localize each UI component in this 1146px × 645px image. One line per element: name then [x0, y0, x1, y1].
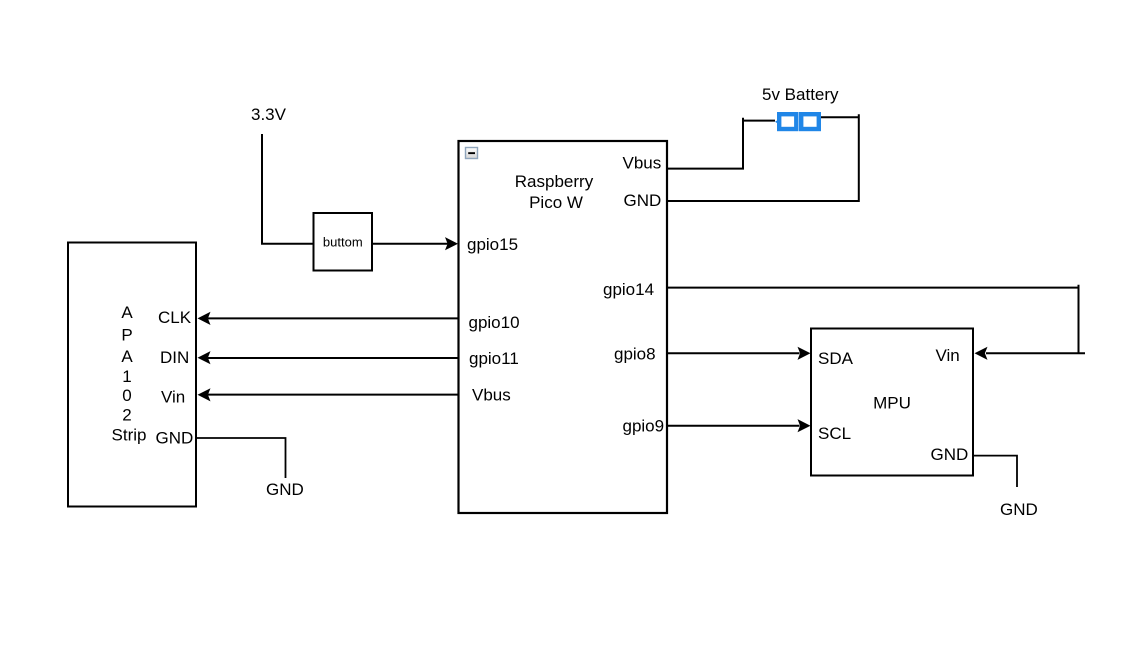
- svg-text:GND: GND: [624, 191, 662, 210]
- Raspberry Pico W block U1: [459, 141, 668, 513]
- wire battery - to GND: [667, 114, 859, 201]
- wire Vbus to battery +: [667, 118, 775, 169]
- svg-text:GND: GND: [931, 445, 969, 464]
- 5v Battery label: [762, 85, 839, 104]
- label MPU: [873, 394, 911, 413]
- pin Vbus (left side): [472, 386, 511, 405]
- wire button to gpio15: [373, 237, 458, 250]
- MPU block U3: [811, 329, 973, 476]
- pin CLK: [158, 308, 192, 327]
- svg-text:gpio8: gpio8: [614, 345, 656, 364]
- svg-text:1: 1: [122, 367, 131, 386]
- svg-text:gpio14: gpio14: [603, 280, 654, 299]
- pin gpio8: [614, 345, 656, 364]
- svg-text:A: A: [121, 303, 133, 322]
- svg-text:CLK: CLK: [158, 308, 192, 327]
- svg-text:buttom: buttom: [323, 235, 363, 250]
- pin GND (MPU): [931, 445, 969, 464]
- collapse button: [466, 148, 478, 159]
- svg-text:gpio11: gpio11: [469, 349, 519, 368]
- svg-text:GND: GND: [266, 480, 304, 499]
- svg-text:SDA: SDA: [818, 349, 854, 368]
- svg-text:SCL: SCL: [818, 424, 851, 443]
- svg-text:DIN: DIN: [160, 348, 189, 367]
- pin SCL: [818, 424, 851, 443]
- button S1 block: [314, 213, 373, 271]
- wire gpio10 to CLK: [198, 312, 459, 325]
- wire GND APA102 to ground: [196, 438, 286, 478]
- label Raspberry Pico W: [515, 172, 594, 212]
- APA102 strip block U2: [68, 243, 196, 507]
- svg-text:5v Battery: 5v Battery: [762, 85, 839, 104]
- pin gpio15: [467, 235, 518, 254]
- label APA102 Strip: [112, 303, 147, 445]
- pin GND (APA102): [156, 429, 194, 448]
- svg-text:MPU: MPU: [873, 394, 911, 413]
- svg-text:Vin: Vin: [161, 388, 185, 407]
- wire gpio8 to SDA: [667, 347, 811, 360]
- svg-text:0: 0: [122, 386, 131, 405]
- GND net label (below MPU): [1000, 500, 1038, 519]
- pin Vin (APA102): [161, 388, 185, 407]
- 3.3V supply label: [251, 105, 287, 124]
- svg-text:3.3V: 3.3V: [251, 105, 287, 124]
- svg-text:Vbus: Vbus: [472, 386, 511, 405]
- wire 3.3V to button: [262, 134, 313, 244]
- svg-text:Pico W: Pico W: [529, 193, 583, 212]
- pin gpio11: [469, 349, 519, 368]
- pin Vbus (top right): [623, 154, 662, 173]
- svg-text:GND: GND: [156, 429, 194, 448]
- svg-text:Vbus: Vbus: [623, 154, 662, 173]
- wire gpio11 to DIN: [198, 351, 459, 364]
- GND net label (below APA102): [266, 480, 304, 499]
- svg-text:P: P: [121, 326, 132, 345]
- pin SDA: [818, 349, 854, 368]
- wire MPU GND to ground: [973, 456, 1017, 487]
- svg-text:Raspberry: Raspberry: [515, 172, 594, 191]
- pin DIN: [160, 348, 189, 367]
- battery B1 (5v): [775, 114, 819, 129]
- wire gpio14 to MPU Vin: [667, 285, 1085, 360]
- pin gpio9: [623, 417, 665, 436]
- svg-text:gpio10: gpio10: [469, 313, 520, 332]
- svg-text:A: A: [121, 347, 133, 366]
- wire Vbus to Vin: [198, 388, 459, 401]
- svg-text:Strip: Strip: [112, 426, 147, 445]
- wire gpio9 to SCL: [667, 419, 811, 432]
- svg-text:GND: GND: [1000, 500, 1038, 519]
- svg-text:Vin: Vin: [936, 346, 960, 365]
- svg-text:gpio15: gpio15: [467, 235, 518, 254]
- pin GND (top right): [624, 191, 662, 210]
- svg-text:2: 2: [122, 406, 131, 425]
- svg-text:gpio9: gpio9: [623, 417, 665, 436]
- pin gpio10: [469, 313, 520, 332]
- pin Vin (MPU): [936, 346, 960, 365]
- pin gpio14: [603, 280, 654, 299]
